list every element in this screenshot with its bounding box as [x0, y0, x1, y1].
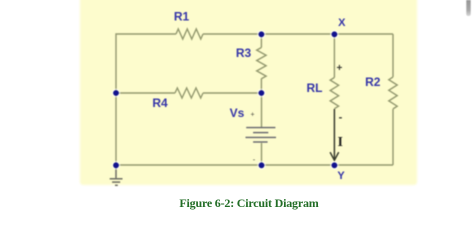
node dot bottom left — [112, 161, 121, 170]
node dot battery bottom — [257, 161, 266, 170]
node dot middle left — [112, 89, 121, 98]
svg-text:-: - — [253, 155, 256, 164]
wire left vertical and top-left segment — [116, 34, 176, 165]
wire middle right — [203, 92, 261, 94]
node dot Y — [330, 161, 339, 170]
wire battery top lead — [261, 93, 263, 127]
svg-text:R1: R1 — [174, 10, 190, 24]
svg-text:Vs: Vs — [230, 106, 245, 120]
svg-text:R3: R3 — [236, 46, 252, 60]
wire top segment R1 to corner via node X — [203, 33, 393, 35]
svg-text:I: I — [338, 134, 343, 149]
resistor R1 — [176, 29, 203, 39]
resistor R4 — [175, 88, 203, 98]
wire RL top lead — [333, 34, 335, 78]
node dot R3 top — [257, 30, 266, 39]
wire bottom — [116, 164, 393, 166]
wire R3 leads — [260, 34, 262, 48]
wire middle left — [116, 92, 175, 94]
svg-text:X: X — [338, 17, 346, 29]
arrow I (current) — [330, 109, 339, 160]
scrollbar thumb — [466, 0, 470, 16]
svg-text:Y: Y — [337, 170, 345, 182]
svg-text:R4: R4 — [152, 96, 168, 110]
svg-text:-: - — [339, 112, 343, 124]
resistor RL — [330, 78, 338, 109]
resistor R2 — [389, 77, 397, 109]
battery Vs plates — [246, 128, 277, 142]
svg-text:R2: R2 — [365, 75, 381, 89]
ground — [110, 165, 123, 185]
svg-text:RL: RL — [307, 81, 323, 95]
node dot middle right — [257, 89, 266, 98]
svg-text:+: + — [250, 112, 254, 119]
resistor R3 — [257, 48, 266, 79]
caption — [12, 196, 474, 211]
wire battery bottom lead — [261, 143, 263, 165]
node dot X — [330, 30, 339, 39]
svg-text:+: + — [336, 63, 342, 74]
panel background — [80, 0, 417, 185]
wire right branch vertical — [392, 34, 394, 77]
